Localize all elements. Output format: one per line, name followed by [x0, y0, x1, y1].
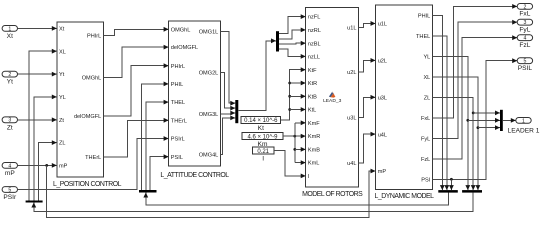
- svg-text:YL: YL: [59, 95, 66, 101]
- svg-text:0.14 × 10^-6: 0.14 × 10^-6: [244, 118, 278, 124]
- svg-text:nzFL: nzFL: [308, 15, 320, 21]
- svg-text:3: 3: [523, 20, 526, 26]
- svg-text:PHIrL: PHIrL: [171, 64, 185, 70]
- output port 1 LEADER 1: [516, 118, 531, 124]
- wire Kt to KtF KtR KtB KtL: [281, 70, 306, 120]
- svg-text:PSIL: PSIL: [171, 155, 183, 161]
- wire u1L: [359, 23, 376, 27]
- svg-text:4: 4: [8, 163, 11, 169]
- input port 5 PSIr: [2, 187, 17, 193]
- wire PHIL to mux M2: [433, 15, 443, 190]
- svg-text:delOMGFL: delOMGFL: [74, 114, 101, 120]
- wire demux1 out3 to ZL: [39, 143, 57, 201]
- wire PHIrL to attitude in1: [104, 29, 169, 35]
- output port 5 PSIL: [517, 58, 532, 64]
- svg-text:FzL: FzL: [421, 157, 430, 163]
- svg-text:XL: XL: [423, 75, 430, 81]
- wire mux M3 output to demux D1: [34, 193, 473, 212]
- mux M3 (YL ZL XL): [462, 190, 482, 193]
- svg-text:FyL: FyL: [519, 26, 530, 33]
- wire mP feedthrough to L_DYNAMIC MODEL mP input: [47, 165, 376, 217]
- wire D3 out4 nzLL: [279, 49, 306, 56]
- svg-text:I: I: [262, 156, 264, 163]
- svg-text:PHIrL: PHIrL: [87, 34, 101, 40]
- input port 4 mP: [2, 163, 17, 169]
- wire FxL to port 2: [433, 6, 518, 117]
- wire Km to KmF KmR KmB KmL: [283, 135, 306, 137]
- wire LEADER mux to port 1: [503, 119, 516, 121]
- svg-text:Kt: Kt: [258, 125, 264, 132]
- svg-text:OMG2L: OMG2L: [199, 71, 219, 77]
- wire THErL to attitude in6: [104, 120, 169, 157]
- svg-text:nzRL: nzRL: [308, 28, 321, 34]
- svg-text:PSIrL: PSIrL: [171, 137, 185, 143]
- wire OMG1L to mux M1: [221, 31, 236, 103]
- svg-text:0.21: 0.21: [257, 149, 269, 155]
- wire port5 PSIr to PSIrL input: [18, 139, 169, 190]
- wire delOMGFL to attitude in3: [104, 66, 169, 116]
- svg-text:5: 5: [523, 59, 526, 65]
- svg-text:THErL: THErL: [171, 118, 187, 124]
- svg-text:L_ATTITUDE CONTROL: L_ATTITUDE CONTROL: [160, 172, 229, 179]
- svg-text:PSIL: PSIL: [518, 65, 533, 72]
- svg-text:KmF: KmF: [308, 121, 320, 127]
- svg-text:5: 5: [8, 187, 11, 193]
- svg-text:Xt: Xt: [7, 33, 13, 40]
- wire ZL to mux M3 and LEADER mux: [433, 97, 474, 190]
- svg-text:OMGhL: OMGhL: [82, 76, 102, 82]
- svg-text:XL: XL: [59, 49, 66, 55]
- mux M2 (PHIL THEL PSI): [438, 190, 458, 193]
- svg-text:KmB: KmB: [308, 148, 320, 154]
- wire YL tap to LEADER mux in2: [466, 119, 469, 122]
- wire port1 to Xt: [18, 27, 57, 29]
- svg-text:KtL: KtL: [308, 108, 316, 114]
- wire XL tap to LEADER mux in3: [477, 126, 480, 129]
- wire demux1 out1 to XL: [29, 51, 57, 200]
- subsystem block MODEL OF ROTORS: [306, 8, 359, 188]
- svg-text:L_DYNAMIC MODEL: L_DYNAMIC MODEL: [374, 193, 434, 200]
- svg-text:1: 1: [8, 26, 11, 32]
- svg-text:2: 2: [8, 72, 11, 78]
- svg-text:nzLL: nzLL: [308, 55, 320, 61]
- wire FyL to port 3: [433, 22, 518, 138]
- svg-text:MODEL OF ROTORS: MODEL OF ROTORS: [302, 191, 363, 198]
- svg-text:Yt: Yt: [59, 72, 65, 78]
- wire I to rotors I input: [274, 151, 306, 176]
- svg-text:Xt: Xt: [59, 27, 65, 33]
- svg-text:Yt: Yt: [7, 79, 13, 86]
- wire ZL tap to LEADER mux in1: [472, 112, 475, 115]
- svg-text:KtF: KtF: [308, 68, 317, 74]
- svg-text:L_POSITION CONTROL: L_POSITION CONTROL: [53, 181, 122, 188]
- svg-text:u4L: u4L: [347, 161, 356, 167]
- input port 2 Yt: [2, 71, 17, 77]
- output port 3 FyL: [517, 19, 532, 25]
- svg-text:mP: mP: [59, 164, 68, 170]
- output port 4 FzL: [517, 35, 532, 41]
- svg-text:KmR: KmR: [308, 134, 320, 140]
- svg-text:FxL: FxL: [421, 116, 430, 122]
- constant Km 4.6x10^-9: [242, 133, 283, 140]
- svg-text:3: 3: [8, 118, 11, 124]
- wire OMG4L to mux M1: [221, 118, 236, 154]
- wire D3 out1 nzFL: [279, 17, 306, 34]
- svg-text:u3L: u3L: [378, 95, 387, 101]
- wire OMG3L to mux M1: [221, 112, 236, 115]
- wire D3 out3 nzBL: [279, 42, 306, 45]
- svg-text:ZL: ZL: [59, 141, 66, 147]
- wire THEL to mux M2: [433, 36, 447, 190]
- wire OMGhL to attitude in2: [104, 47, 169, 77]
- svg-text:KtR: KtR: [308, 81, 317, 87]
- wire u3L: [359, 97, 376, 117]
- constant I 0.21: [252, 147, 274, 154]
- wire demux2 out2 to THEL: [146, 102, 169, 190]
- svg-text:KtB: KtB: [308, 94, 317, 100]
- svg-text:LEADER 1: LEADER 1: [508, 128, 540, 135]
- svg-text:FxL: FxL: [519, 11, 530, 18]
- svg-text:THEL: THEL: [171, 100, 185, 106]
- svg-text:LEAD_3: LEAD_3: [323, 98, 341, 104]
- wire demux2 out3 to PSIL: [150, 157, 169, 190]
- svg-text:delOMGFL: delOMGFL: [171, 45, 198, 51]
- wire mux M1 output to demux D3: [238, 41, 276, 111]
- svg-text:mP: mP: [378, 169, 387, 175]
- svg-text:PHIL: PHIL: [171, 82, 183, 88]
- svg-text:OMG1L: OMG1L: [199, 30, 219, 36]
- input port 1 Xt: [2, 26, 17, 32]
- svg-text:u4L: u4L: [378, 132, 387, 138]
- svg-text:u3L: u3L: [347, 115, 356, 121]
- wire demux2 out1 to PHIL: [142, 84, 169, 190]
- wire port4 to mP input: [18, 164, 57, 166]
- svg-text:nzBL: nzBL: [308, 41, 321, 47]
- svg-text:THEL: THEL: [416, 34, 430, 40]
- svg-text:FzL: FzL: [519, 42, 530, 49]
- demux D1 (XL YL ZL feedback): [26, 201, 43, 203]
- svg-text:u2L: u2L: [378, 58, 387, 64]
- junction PSI branch: [450, 178, 453, 181]
- svg-text:ZL: ZL: [424, 95, 431, 101]
- input port 3 Zt: [2, 117, 17, 123]
- wire PSI to port 5 with branch to mux M2: [433, 61, 518, 180]
- svg-text:u1L: u1L: [378, 22, 387, 28]
- svg-text:PHIL: PHIL: [418, 13, 430, 19]
- svg-text:YL: YL: [423, 54, 430, 60]
- wire demux1 out2 to YL: [34, 97, 57, 201]
- svg-text:4.6 × 10^-9: 4.6 × 10^-9: [247, 134, 278, 140]
- svg-text:KmL: KmL: [308, 161, 320, 167]
- svg-text:mP: mP: [5, 170, 15, 177]
- svg-text:Zt: Zt: [59, 118, 64, 124]
- svg-text:u1L: u1L: [347, 26, 356, 32]
- subsystem block L_ATTITUDE CONTROL: [169, 21, 221, 166]
- subsystem block L_POSITION CONTROL: [57, 22, 104, 177]
- svg-text:1: 1: [522, 118, 525, 124]
- svg-text:u2L: u2L: [347, 70, 356, 76]
- svg-text:Zt: Zt: [7, 124, 13, 131]
- demux D3 (nz signals): [276, 31, 279, 51]
- output port 2 FxL: [517, 4, 532, 10]
- constant Kt 0.14x10^-6: [241, 117, 281, 124]
- wire XL to mux M3 and LEADER mux: [433, 77, 478, 190]
- wire D3 out2 nzRL: [279, 30, 306, 39]
- mux M1 (OMG1L..OMG4L): [235, 100, 238, 123]
- svg-text:FyL: FyL: [421, 136, 430, 142]
- wire FzL to port 4: [433, 38, 518, 159]
- wire YL to mux M3 and LEADER mux: [433, 56, 468, 190]
- wire u2L: [359, 60, 376, 72]
- svg-text:OMGhL: OMGhL: [171, 27, 191, 33]
- demux D2 (PHIL THEL PSIL feedback): [139, 190, 157, 193]
- svg-text:PSI: PSI: [421, 177, 430, 183]
- svg-text:OMG4L: OMG4L: [199, 153, 219, 159]
- wire port3 to Zt: [18, 119, 57, 121]
- wire mux M2 output to demux D2: [146, 193, 449, 206]
- MATLAB logo icon LEAD_3 inside MODEL OF ROTORS: [323, 91, 341, 104]
- wire u4L: [359, 134, 376, 163]
- junction mP branch: [45, 164, 48, 167]
- svg-text:OMG3L: OMG3L: [199, 112, 219, 118]
- svg-text:THErL: THErL: [85, 155, 101, 161]
- mux M4 (LEADER 1 output): [500, 110, 503, 131]
- wire OMG2L to mux M1: [221, 73, 236, 109]
- svg-text:4: 4: [523, 36, 526, 42]
- wire port2 to Yt: [18, 73, 57, 75]
- svg-text:PSIr: PSIr: [3, 194, 17, 201]
- subsystem block L_DYNAMIC MODEL: [376, 5, 433, 190]
- svg-text:2: 2: [523, 4, 526, 10]
